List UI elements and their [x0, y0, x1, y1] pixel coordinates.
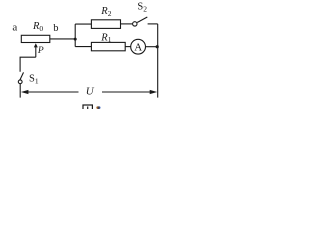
svg-text:A: A — [134, 41, 142, 53]
svg-text:U: U — [86, 86, 95, 98]
svg-text:b: b — [53, 23, 58, 34]
svg-text:P: P — [37, 46, 44, 56]
svg-text:a: a — [12, 22, 17, 34]
